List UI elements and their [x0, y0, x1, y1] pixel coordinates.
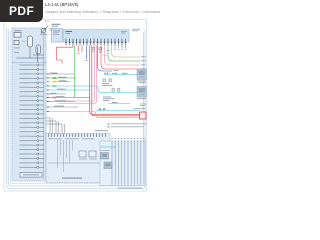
figure mark: [45, 19, 49, 23]
cluster indicator row 4: [20, 77, 44, 79]
cluster bottom label box: [20, 173, 42, 178]
cyan wire 4: [95, 108, 145, 110]
wire row LTB y86 chip: [53, 85, 57, 87]
wire label right stack 4: [141, 67, 146, 70]
PCM bottom label: [62, 178, 82, 179]
cluster indicator row 15: [20, 126, 44, 128]
connector C01 note right: [121, 30, 127, 33]
battery junction box red: [140, 112, 147, 119]
wire label right stack 3: [141, 63, 146, 66]
hatch vertical wires: [112, 141, 144, 185]
cluster indicator row 11: [20, 109, 44, 111]
gauge module label: [14, 30, 22, 31]
connector C01 pin 3: [72, 39, 74, 46]
footer text: [118, 188, 142, 189]
junction box J1 inner labels: [53, 31, 60, 35]
legend item 2: [108, 126, 144, 128]
cluster indicator row 8: [20, 95, 44, 97]
connector C01 pin 13: [107, 39, 109, 46]
wire RED stub A: [77, 46, 82, 54]
bottom small cyan wire 1: [100, 146, 116, 148]
legend item 1: [108, 123, 147, 125]
wire row GRY y94: [46, 93, 66, 94]
bus pair left 2: [56, 121, 58, 134]
cluster indicator row 10: [20, 104, 44, 106]
cluster indicator row 23: [20, 162, 44, 164]
gauge module box M1: [14, 33, 21, 38]
instrument cluster box: [12, 28, 46, 181]
wire code labels near curves: [99, 50, 110, 56]
connector C01 pin 5: [79, 39, 81, 46]
connector C01 pin 1: [65, 39, 67, 46]
connector C01 pin 14: [111, 39, 113, 46]
wire row GRN y78: [46, 77, 76, 79]
pin stub 16: [118, 46, 120, 50]
cyan wire 3: [108, 102, 130, 104]
connector C01 pin 7: [86, 39, 88, 46]
PCM internal verticals: [58, 140, 73, 172]
junction box J1 title above: [52, 24, 61, 27]
junction box J1: [52, 29, 63, 43]
connector C01 pin 16: [118, 39, 120, 46]
voltage regulator box M2: [14, 41, 19, 45]
wire GRN right run: [108, 46, 140, 62]
wire row GRN capsule y101.5: [46, 100, 75, 101]
wire cluster internal horizontal 55: [33, 54, 44, 56]
wire row GRY y107: [46, 106, 78, 107]
cluster indicator row 13: [20, 117, 44, 119]
right pin symbols above cyan2: [112, 89, 120, 91]
PCM sub box labels: [79, 158, 97, 161]
cluster indicator row 7: [20, 91, 44, 93]
cluster indicator row 16: [20, 131, 44, 133]
wire RED vertical pair 2: [92, 46, 146, 116]
connector external note: [132, 28, 141, 31]
sensor photo P2: [137, 87, 147, 98]
wire BLU end label: [114, 69, 119, 72]
cluster indicator row 1: [20, 64, 44, 66]
wire row GRY y74: [46, 73, 74, 74]
wire PNK drop 1: [58, 46, 95, 102]
cluster indicator row 24: [20, 166, 44, 168]
wire label right stack 1: [141, 55, 146, 58]
PCM pin labels: [48, 137, 94, 140]
wire row LTB y90: [46, 89, 90, 90]
diagram outer frame: [7, 28, 145, 189]
sensor P2 label: [137, 97, 146, 100]
connector C01 pin 10: [97, 39, 99, 46]
diagram middle frame: [9, 30, 144, 187]
cluster misc labels: [14, 41, 26, 53]
cluster indicator row 2: [20, 68, 44, 70]
right labels mid: [103, 97, 115, 101]
title line 2: [45, 10, 160, 14]
connector C01 label: [66, 31, 73, 32]
connector C01 pin 12: [104, 39, 106, 46]
connector C01 pin 15: [114, 39, 116, 46]
sensor photo P1: [137, 69, 147, 80]
wire BLU stub: [85, 46, 89, 61]
wire row LTB y86: [46, 86, 137, 93]
cluster divider: [12, 62, 46, 64]
wire cluster internal horizontal: [17, 57, 44, 59]
connector C01 pin 11: [100, 39, 102, 46]
wire row TAN y111.5: [46, 112, 146, 118]
cyan wire to sensor 1: [104, 73, 137, 75]
pin stub 18: [125, 46, 127, 50]
diagram inner frame: [10, 31, 138, 184]
clock icon label: [40, 33, 47, 36]
wire TAN right run: [112, 46, 141, 58]
wire row pin numbers: [47, 74, 49, 112]
wire cluster internal vertical: [37, 47, 39, 63]
wire row YEL y82: [53, 80, 71, 82]
PCM sub box 1: [79, 151, 86, 157]
cluster indicator row 21: [20, 153, 44, 155]
cluster indicator row 20: [20, 149, 44, 151]
temp gauge G2: [36, 45, 41, 54]
cluster indicator row 22: [20, 157, 44, 159]
wire PNK right run: [105, 46, 141, 66]
PCM top pin ticks: [49, 134, 106, 137]
cluster bottom label text: [23, 174, 39, 175]
connector C01 box: [64, 30, 130, 43]
connector C01 pin 2: [69, 39, 71, 46]
connector C01 pin 8: [90, 39, 92, 46]
cluster indicator row 14: [20, 122, 44, 124]
connector C01 pin 18: [125, 39, 127, 46]
splice connector S2: [99, 48, 102, 52]
cluster indicator row 9: [20, 100, 44, 102]
bus pair left 1: [50, 118, 52, 134]
clock icon needle: [41, 26, 48, 33]
right small pins row1: [102, 79, 113, 86]
sensor P1 label: [137, 81, 146, 84]
page border: [4, 20, 147, 192]
PCM box title above: [95, 129, 108, 132]
PCM sub box 2: [89, 151, 96, 157]
wire PNK drop 2: [58, 46, 96, 104]
PCM internal wire: [48, 162, 106, 164]
PDF badge: [0, 0, 43, 22]
connector C01 pin 9: [93, 39, 95, 46]
cluster lower rows wires: [46, 118, 62, 124]
clock icon dial: [41, 28, 45, 32]
bus pair left 3: [62, 124, 64, 134]
PCM box: [46, 134, 110, 183]
pin stub 15: [114, 46, 116, 50]
splice connector S1: [92, 48, 95, 52]
wire RED loop upper-left: [57, 46, 74, 64]
wire BLU long: [98, 46, 113, 72]
connector C01 pin 17: [121, 39, 123, 46]
wire label right stack 2: [141, 59, 146, 62]
pin stub 17: [121, 46, 123, 50]
cluster indicator row 17: [20, 135, 44, 137]
cluster indicator row 6: [20, 86, 44, 88]
cluster indicator row 18: [20, 140, 44, 142]
hot-at-all-times label: [140, 104, 147, 106]
title line 1: [45, 2, 78, 7]
ground distribution box: [100, 141, 146, 186]
cluster indicator row 12: [20, 113, 44, 115]
cluster indicator row 5: [20, 82, 44, 84]
wire gauge link: [29, 47, 31, 58]
bottom relay box 2: [104, 162, 112, 169]
fuel gauge G1: [28, 36, 33, 47]
connector C01 pin 4: [76, 39, 78, 46]
wire RED right run: [101, 46, 140, 70]
wire row RED y97.5: [46, 96, 90, 98]
cluster bus right inner line: [43, 30, 45, 179]
clock icon note: [50, 28, 54, 30]
cluster indicator row 19: [20, 144, 44, 146]
connector C01 pin 6: [83, 39, 85, 46]
wire RED vertical pair 1: [90, 46, 146, 115]
cluster indicator row 3: [20, 73, 44, 75]
hatch pin labels top: [111, 137, 145, 140]
bottom small grey wire 2: [100, 150, 110, 152]
wire GRN long vertical: [74, 46, 76, 98]
bottom relay box 1: [101, 153, 109, 160]
